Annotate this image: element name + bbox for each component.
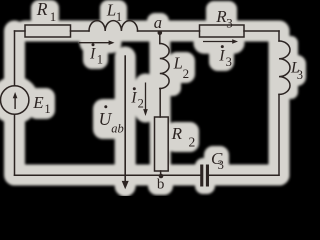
voltage arrow Uab [122, 55, 129, 189]
svg-text:2: 2 [183, 66, 190, 81]
svg-text:R: R [36, 0, 48, 19]
svg-text:b: b [157, 177, 165, 193]
node a [158, 31, 163, 36]
wire left vertical bottom [14, 114, 16, 175]
svg-text:3: 3 [297, 68, 303, 82]
svg-text:1: 1 [97, 53, 103, 67]
inductor L3 [279, 41, 290, 94]
wire R3 to right corner [244, 30, 279, 32]
inductor L2 [160, 44, 169, 89]
wire R1 to L1 [71, 30, 90, 32]
resistor R1 [25, 25, 71, 37]
svg-text:1: 1 [116, 9, 123, 24]
current arrow I3 [203, 39, 238, 43]
current arrow I1 [79, 40, 115, 45]
wire L2 to R2 [159, 89, 161, 118]
svg-text:1: 1 [50, 9, 57, 24]
current arrow I2 [143, 83, 148, 117]
svg-text:3: 3 [226, 15, 233, 30]
wire L1 to R3 through node a [138, 30, 200, 32]
resistor R3 [200, 25, 245, 37]
wire right vertical top [278, 31, 280, 41]
svg-text:3: 3 [226, 55, 232, 69]
inductor L1 [89, 21, 138, 31]
svg-text:3: 3 [218, 158, 224, 172]
svg-text:ab: ab [111, 122, 124, 136]
svg-text:I: I [218, 47, 225, 64]
svg-text:2: 2 [189, 134, 196, 149]
paper halo patches for labels and parts [0, 0, 306, 195]
wire R2 to node b [160, 171, 162, 175]
source E1 circle [1, 86, 29, 114]
capacitor C3 [200, 165, 209, 187]
wire right vertical bottom [278, 95, 280, 176]
wire top-left horizontal [15, 30, 26, 32]
wire left vertical top [14, 31, 16, 86]
svg-text:a: a [154, 13, 162, 32]
svg-text:I: I [89, 46, 96, 63]
canvas background [0, 0, 309, 196]
node b [159, 174, 164, 179]
wire bottom right of capacitor [209, 174, 279, 176]
svg-text:E: E [32, 93, 44, 112]
wire node a stub down [159, 33, 161, 44]
resistor R2 [155, 117, 169, 171]
paper halo band along circuit [0, 0, 306, 195]
svg-text:1: 1 [44, 102, 50, 116]
svg-text:L: L [173, 54, 183, 73]
svg-text:L: L [106, 0, 116, 19]
svg-text:2: 2 [138, 97, 144, 111]
source E1 arrow [13, 92, 18, 109]
wire bottom left of capacitor [15, 174, 201, 176]
svg-text:R: R [171, 124, 183, 143]
svg-text:I: I [130, 90, 137, 107]
